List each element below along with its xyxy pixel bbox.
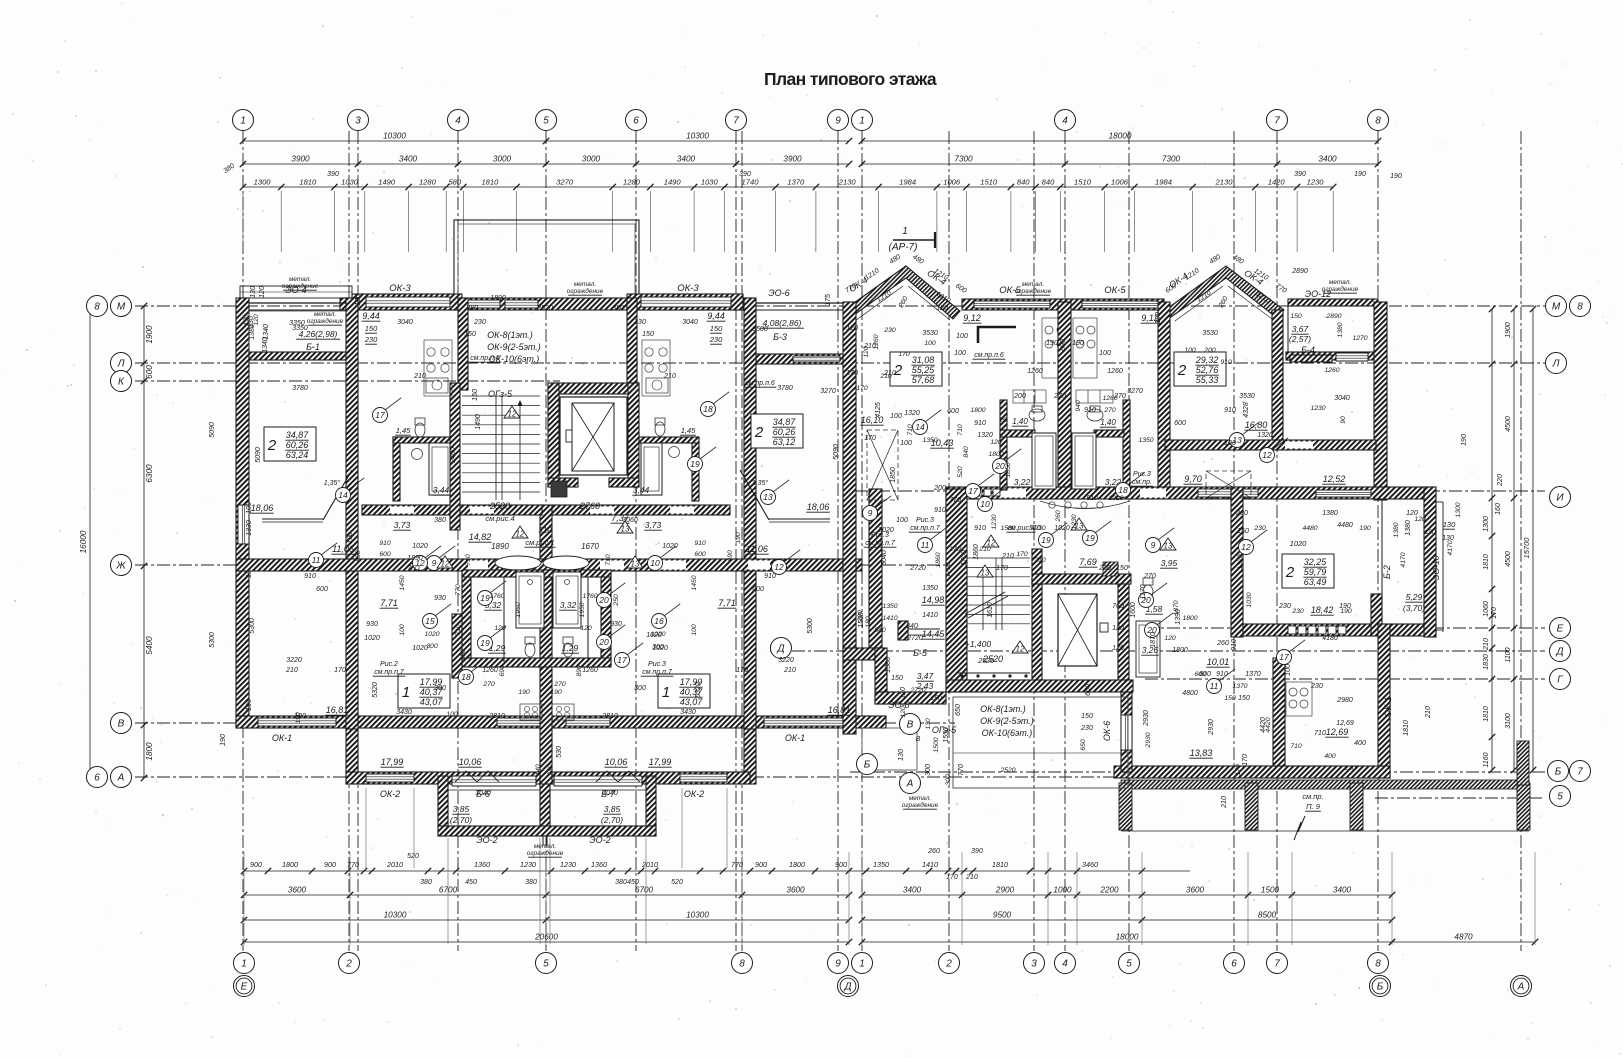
svg-text:3400: 3400 bbox=[1318, 155, 1337, 164]
svg-text:3,44: 3,44 bbox=[633, 485, 650, 495]
svg-text:1984: 1984 bbox=[899, 178, 916, 187]
svg-text:910: 910 bbox=[1084, 407, 1096, 414]
svg-text:3460: 3460 bbox=[1082, 860, 1098, 869]
svg-text:3020: 3020 bbox=[878, 527, 894, 534]
svg-text:18000: 18000 bbox=[1109, 132, 1132, 141]
svg-text:1810: 1810 bbox=[1483, 554, 1490, 570]
svg-text:Б-4: Б-4 bbox=[1301, 345, 1315, 355]
svg-text:7: 7 bbox=[1577, 767, 1583, 778]
svg-text:3780: 3780 bbox=[292, 385, 308, 392]
svg-text:3000: 3000 bbox=[493, 155, 512, 164]
svg-text:270: 270 bbox=[482, 681, 495, 688]
svg-text:150: 150 bbox=[891, 675, 903, 682]
svg-text:120: 120 bbox=[900, 687, 907, 699]
svg-text:20: 20 bbox=[994, 461, 1005, 471]
svg-text:16,80: 16,80 bbox=[1245, 420, 1268, 430]
svg-text:1800: 1800 bbox=[145, 742, 154, 761]
svg-text:2010: 2010 bbox=[641, 860, 658, 869]
svg-text:250: 250 bbox=[613, 594, 620, 607]
svg-text:5400: 5400 bbox=[145, 636, 154, 655]
svg-text:1: 1 bbox=[859, 116, 865, 127]
svg-text:710: 710 bbox=[1314, 730, 1326, 737]
svg-text:4870: 4870 bbox=[1454, 933, 1473, 942]
svg-text:3,73: 3,73 bbox=[394, 520, 411, 530]
svg-text:4: 4 bbox=[1062, 959, 1068, 970]
svg-text:2130: 2130 bbox=[1215, 178, 1234, 187]
svg-text:8: 8 bbox=[1375, 116, 1381, 127]
svg-text:Рис.3: Рис.3 bbox=[648, 661, 666, 668]
svg-text:380: 380 bbox=[612, 305, 624, 312]
svg-text:9500: 9500 bbox=[993, 911, 1012, 920]
svg-text:1890: 1890 bbox=[491, 542, 509, 551]
svg-text:2130: 2130 bbox=[838, 178, 857, 187]
svg-text:100: 100 bbox=[954, 350, 966, 357]
svg-text:1410: 1410 bbox=[882, 615, 897, 622]
svg-text:230: 230 bbox=[633, 319, 646, 326]
svg-text:120: 120 bbox=[253, 314, 260, 326]
svg-text:3,67: 3,67 bbox=[1292, 324, 1309, 334]
svg-text:29,32: 29,32 bbox=[1195, 355, 1219, 365]
svg-text:210: 210 bbox=[978, 546, 991, 553]
svg-text:1380: 1380 bbox=[885, 657, 892, 673]
svg-text:2930: 2930 bbox=[1145, 732, 1152, 748]
svg-text:1020: 1020 bbox=[424, 631, 439, 638]
svg-text:1700: 1700 bbox=[945, 562, 952, 577]
svg-text:2: 2 bbox=[1177, 362, 1187, 379]
svg-text:1500: 1500 bbox=[1261, 886, 1280, 895]
svg-text:100: 100 bbox=[1224, 440, 1236, 447]
svg-text:7060: 7060 bbox=[622, 517, 638, 524]
svg-text:190: 190 bbox=[295, 712, 302, 724]
svg-text:1020: 1020 bbox=[364, 635, 380, 642]
svg-text:1,45: 1,45 bbox=[396, 426, 411, 435]
svg-text:4180: 4180 bbox=[1322, 635, 1338, 642]
svg-text:150: 150 bbox=[642, 331, 654, 338]
svg-text:100: 100 bbox=[1184, 347, 1196, 354]
svg-text:43,07: 43,07 bbox=[420, 697, 444, 707]
svg-text:1700: 1700 bbox=[961, 550, 968, 566]
svg-text:1810: 1810 bbox=[1483, 706, 1490, 722]
svg-text:ОК-5: ОК-5 bbox=[1104, 285, 1126, 296]
svg-text:190: 190 bbox=[246, 699, 253, 711]
svg-text:2: 2 bbox=[267, 437, 277, 454]
svg-text:1830: 1830 bbox=[1483, 654, 1490, 670]
svg-text:380: 380 bbox=[466, 305, 478, 312]
svg-text:7300: 7300 bbox=[954, 155, 973, 164]
svg-text:210: 210 bbox=[1001, 553, 1014, 560]
svg-text:190: 190 bbox=[1354, 171, 1366, 178]
svg-text:770: 770 bbox=[347, 860, 359, 869]
svg-text:1610: 1610 bbox=[987, 602, 994, 618]
svg-text:1300: 1300 bbox=[1483, 516, 1490, 532]
svg-text:1006: 1006 bbox=[1111, 178, 1129, 187]
svg-text:600: 600 bbox=[379, 551, 391, 558]
svg-text:3530: 3530 bbox=[922, 330, 938, 337]
svg-text:19: 19 bbox=[480, 638, 490, 648]
svg-text:130: 130 bbox=[355, 294, 362, 306]
svg-text:63,12: 63,12 bbox=[773, 437, 796, 447]
svg-text:метал.: метал. bbox=[1329, 279, 1352, 286]
svg-text:390: 390 bbox=[971, 848, 983, 855]
svg-text:3430: 3430 bbox=[396, 709, 412, 716]
svg-text:18,06: 18,06 bbox=[807, 502, 830, 512]
svg-text:3400: 3400 bbox=[1333, 886, 1352, 895]
svg-text:14,82: 14,82 bbox=[469, 532, 492, 542]
svg-text:13: 13 bbox=[1164, 542, 1173, 551]
svg-text:1030: 1030 bbox=[1246, 592, 1253, 607]
svg-text:2900: 2900 bbox=[995, 886, 1015, 895]
svg-text:10,06: 10,06 bbox=[459, 757, 482, 767]
svg-text:ОК-9(2-5эт.): ОК-9(2-5эт.) bbox=[487, 342, 541, 352]
svg-text:12: 12 bbox=[1241, 542, 1251, 552]
svg-text:7,71: 7,71 bbox=[380, 598, 398, 608]
svg-text:150: 150 bbox=[1237, 528, 1249, 535]
svg-text:1320: 1320 bbox=[904, 410, 920, 417]
svg-text:3,85: 3,85 bbox=[453, 804, 470, 814]
svg-text:8500: 8500 bbox=[1258, 911, 1277, 920]
svg-text:см.пр.п.7: см.пр.п.7 bbox=[642, 669, 673, 676]
svg-text:100: 100 bbox=[890, 413, 902, 420]
svg-text:1350: 1350 bbox=[922, 585, 938, 592]
svg-text:900: 900 bbox=[324, 860, 336, 869]
svg-text:3100: 3100 bbox=[1505, 713, 1512, 729]
svg-text:100: 100 bbox=[399, 624, 406, 636]
svg-text:8: 8 bbox=[1577, 302, 1583, 313]
svg-text:ограждение: ограждение bbox=[1015, 287, 1052, 295]
svg-text:1760: 1760 bbox=[582, 593, 597, 600]
svg-text:120: 120 bbox=[846, 325, 858, 332]
svg-text:100: 100 bbox=[1285, 664, 1292, 676]
svg-text:А: А bbox=[1517, 982, 1525, 993]
svg-text:1420: 1420 bbox=[1268, 178, 1286, 187]
svg-text:1320: 1320 bbox=[1237, 554, 1244, 569]
svg-text:910: 910 bbox=[694, 540, 706, 547]
svg-text:150: 150 bbox=[1290, 313, 1302, 320]
svg-text:ЭО-2: ЭО-2 bbox=[589, 835, 610, 845]
svg-text:710: 710 bbox=[957, 424, 964, 436]
svg-text:930: 930 bbox=[434, 595, 446, 602]
svg-text:1490: 1490 bbox=[378, 178, 396, 187]
svg-text:1890: 1890 bbox=[490, 295, 506, 302]
svg-text:170: 170 bbox=[864, 435, 876, 442]
svg-text:210: 210 bbox=[663, 373, 676, 380]
svg-text:120: 120 bbox=[900, 706, 907, 718]
svg-text:940: 940 bbox=[1075, 400, 1082, 412]
svg-text:190: 190 bbox=[1390, 173, 1402, 180]
svg-text:3040: 3040 bbox=[397, 319, 413, 326]
svg-text:1020: 1020 bbox=[1290, 539, 1308, 548]
svg-text:260: 260 bbox=[1055, 510, 1062, 523]
svg-text:1810: 1810 bbox=[481, 178, 499, 187]
svg-text:1380: 1380 bbox=[1393, 522, 1400, 537]
svg-text:63,24: 63,24 bbox=[286, 450, 309, 460]
svg-text:2520: 2520 bbox=[999, 767, 1015, 774]
svg-text:34,87: 34,87 bbox=[773, 417, 797, 427]
svg-text:1810: 1810 bbox=[992, 860, 1008, 869]
svg-text:1330: 1330 bbox=[246, 520, 253, 536]
svg-text:600: 600 bbox=[1194, 671, 1206, 678]
svg-text:см.пр.п.7: см.пр.п.7 bbox=[865, 540, 896, 547]
svg-text:4420: 4420 bbox=[1265, 717, 1272, 732]
svg-text:19: 19 bbox=[1041, 535, 1051, 545]
svg-text:Б-3: Б-3 bbox=[773, 332, 787, 342]
svg-text:17: 17 bbox=[968, 486, 978, 496]
svg-text:170: 170 bbox=[736, 667, 748, 674]
svg-text:1,45: 1,45 bbox=[681, 426, 696, 435]
svg-text:Ж: Ж bbox=[115, 561, 126, 572]
svg-text:П. 9: П. 9 bbox=[1306, 802, 1321, 811]
svg-text:770: 770 bbox=[949, 497, 961, 504]
svg-text:ограждение: ограждение bbox=[902, 801, 939, 809]
svg-text:(2,70): (2,70) bbox=[450, 815, 472, 825]
svg-text:1370: 1370 bbox=[1245, 671, 1261, 678]
svg-text:Д: Д bbox=[1555, 647, 1563, 658]
svg-text:1810: 1810 bbox=[1403, 720, 1410, 736]
svg-text:710: 710 bbox=[455, 624, 462, 636]
svg-text:10: 10 bbox=[650, 558, 660, 568]
svg-text:3530: 3530 bbox=[1202, 330, 1218, 337]
svg-text:12: 12 bbox=[516, 530, 525, 539]
svg-text:13: 13 bbox=[981, 569, 990, 578]
svg-text:1,40: 1,40 bbox=[1100, 418, 1116, 427]
svg-text:710: 710 bbox=[1290, 743, 1302, 750]
svg-text:3600: 3600 bbox=[786, 886, 805, 895]
svg-text:450: 450 bbox=[465, 879, 477, 886]
svg-text:120: 120 bbox=[1414, 516, 1426, 523]
svg-text:1230: 1230 bbox=[560, 860, 576, 869]
svg-text:17,99: 17,99 bbox=[381, 757, 404, 767]
svg-text:см.пр.п.6: см.пр.п.6 bbox=[745, 380, 775, 387]
svg-text:1,29: 1,29 bbox=[562, 643, 579, 653]
svg-text:1950: 1950 bbox=[579, 602, 586, 617]
svg-text:5: 5 bbox=[1557, 792, 1563, 803]
svg-text:1: 1 bbox=[402, 684, 410, 701]
svg-text:3,47: 3,47 bbox=[917, 671, 934, 681]
svg-text:2: 2 bbox=[754, 424, 764, 441]
svg-text:840: 840 bbox=[874, 627, 886, 634]
svg-text:План типового этажа: План типового этажа bbox=[764, 69, 937, 89]
svg-text:7: 7 bbox=[1274, 959, 1280, 970]
svg-text:1: 1 bbox=[662, 684, 670, 701]
svg-text:230: 230 bbox=[473, 319, 486, 326]
svg-text:Б-1: Б-1 bbox=[306, 342, 320, 352]
svg-text:12: 12 bbox=[774, 562, 784, 572]
svg-text:760: 760 bbox=[1112, 603, 1124, 610]
svg-text:1810: 1810 bbox=[299, 178, 317, 187]
svg-text:1320: 1320 bbox=[1257, 432, 1273, 439]
svg-text:520: 520 bbox=[957, 466, 964, 478]
svg-text:Б: Б bbox=[1377, 982, 1384, 993]
svg-text:31,08: 31,08 bbox=[912, 355, 935, 365]
svg-text:18: 18 bbox=[1118, 485, 1128, 495]
svg-text:3530: 3530 bbox=[1239, 393, 1255, 400]
svg-text:130: 130 bbox=[1443, 520, 1456, 529]
svg-text:19: 19 bbox=[1085, 533, 1095, 543]
svg-text:7: 7 bbox=[1274, 116, 1280, 127]
svg-text:1230: 1230 bbox=[991, 514, 998, 529]
svg-text:см.пр.п.6: см.пр.п.6 bbox=[974, 352, 1004, 359]
svg-text:5300: 5300 bbox=[209, 632, 216, 648]
svg-text:2760: 2760 bbox=[579, 501, 600, 511]
svg-text:ОК-3: ОК-3 bbox=[677, 283, 699, 294]
svg-text:метал.: метал. bbox=[314, 311, 337, 318]
svg-text:910: 910 bbox=[934, 507, 946, 514]
svg-text:16000: 16000 bbox=[79, 530, 88, 553]
svg-text:5320: 5320 bbox=[695, 682, 702, 698]
svg-text:1230: 1230 bbox=[1071, 514, 1078, 529]
svg-text:1020: 1020 bbox=[1108, 495, 1123, 502]
svg-text:6300: 6300 bbox=[145, 464, 154, 483]
svg-text:530: 530 bbox=[556, 746, 563, 758]
svg-text:А: А bbox=[906, 779, 914, 790]
svg-text:5: 5 bbox=[543, 116, 549, 127]
svg-text:1380: 1380 bbox=[1405, 520, 1412, 536]
svg-text:1,40: 1,40 bbox=[1012, 417, 1028, 426]
svg-text:770: 770 bbox=[455, 584, 462, 596]
svg-text:170: 170 bbox=[996, 565, 1008, 572]
svg-text:7,71: 7,71 bbox=[718, 598, 736, 608]
svg-text:3,85: 3,85 bbox=[604, 804, 621, 814]
svg-text:100: 100 bbox=[896, 517, 908, 524]
svg-text:170: 170 bbox=[1235, 764, 1242, 776]
svg-text:160: 160 bbox=[1495, 503, 1502, 515]
svg-text:ОК-1: ОК-1 bbox=[1383, 697, 1393, 717]
svg-text:770: 770 bbox=[731, 860, 743, 869]
svg-text:1360: 1360 bbox=[591, 860, 607, 869]
svg-text:57,68: 57,68 bbox=[912, 375, 935, 385]
svg-text:7,69: 7,69 bbox=[1079, 557, 1097, 567]
svg-text:380: 380 bbox=[420, 879, 432, 886]
svg-text:см.рис.1: см.рис.1 bbox=[525, 538, 554, 547]
svg-text:А: А bbox=[117, 773, 125, 784]
svg-text:5090: 5090 bbox=[833, 444, 840, 460]
svg-text:650: 650 bbox=[1085, 684, 1092, 696]
svg-text:2930: 2930 bbox=[1208, 719, 1215, 736]
svg-text:1800: 1800 bbox=[282, 860, 298, 869]
svg-text:270: 270 bbox=[553, 681, 566, 688]
svg-text:190: 190 bbox=[1461, 434, 1468, 446]
svg-text:190: 190 bbox=[1046, 340, 1058, 347]
svg-text:5: 5 bbox=[1126, 959, 1132, 970]
svg-text:170: 170 bbox=[946, 874, 958, 881]
svg-text:120: 120 bbox=[1112, 625, 1124, 632]
svg-text:910: 910 bbox=[304, 573, 316, 580]
svg-text:12,69: 12,69 bbox=[1336, 720, 1354, 727]
svg-text:170: 170 bbox=[898, 351, 910, 358]
svg-text:210: 210 bbox=[879, 373, 892, 380]
svg-text:100: 100 bbox=[956, 333, 968, 340]
svg-text:17: 17 bbox=[375, 410, 385, 420]
svg-text:175: 175 bbox=[825, 294, 832, 306]
svg-text:90: 90 bbox=[1340, 416, 1347, 424]
svg-text:2: 2 bbox=[345, 959, 352, 970]
svg-text:3040: 3040 bbox=[602, 790, 618, 797]
svg-text:(3,70): (3,70) bbox=[1403, 603, 1425, 613]
svg-text:3,73: 3,73 bbox=[645, 520, 662, 530]
svg-text:1300: 1300 bbox=[1455, 502, 1462, 517]
svg-text:300: 300 bbox=[426, 643, 438, 650]
svg-text:Л: Л bbox=[117, 359, 125, 370]
svg-text:300: 300 bbox=[634, 685, 646, 692]
svg-text:3000: 3000 bbox=[582, 155, 601, 164]
svg-text:4500: 4500 bbox=[1505, 416, 1512, 432]
svg-text:ОК-8(1эт.): ОК-8(1эт.) bbox=[487, 330, 533, 340]
svg-text:ОК-9(2-5эт.): ОК-9(2-5эт.) bbox=[980, 716, 1034, 726]
svg-text:910: 910 bbox=[1216, 671, 1228, 678]
svg-text:8: 8 bbox=[1375, 959, 1381, 970]
svg-text:1900: 1900 bbox=[1505, 322, 1512, 338]
svg-text:11: 11 bbox=[1210, 681, 1219, 691]
svg-text:230: 230 bbox=[1310, 683, 1323, 690]
svg-text:150: 150 bbox=[710, 324, 723, 333]
svg-text:1760: 1760 bbox=[489, 593, 504, 600]
svg-text:1550: 1550 bbox=[943, 727, 950, 743]
svg-text:170: 170 bbox=[949, 546, 961, 553]
svg-text:520: 520 bbox=[671, 879, 683, 886]
svg-text:Л: Л bbox=[1552, 359, 1560, 370]
svg-text:600: 600 bbox=[752, 586, 764, 593]
svg-text:ОК-2: ОК-2 bbox=[684, 789, 704, 799]
svg-text:190: 190 bbox=[220, 734, 227, 746]
svg-text:И: И bbox=[1556, 493, 1564, 504]
svg-text:120: 120 bbox=[1155, 312, 1162, 324]
svg-text:910: 910 bbox=[974, 420, 986, 427]
svg-text:150: 150 bbox=[1238, 695, 1250, 702]
svg-text:930: 930 bbox=[610, 621, 622, 628]
svg-text:12,52: 12,52 bbox=[1323, 474, 1346, 484]
svg-text:ОК-6: ОК-6 bbox=[1102, 721, 1112, 741]
svg-text:13: 13 bbox=[631, 560, 640, 569]
svg-text:220: 220 bbox=[1497, 474, 1504, 487]
svg-text:170: 170 bbox=[846, 370, 858, 377]
svg-text:Б-5: Б-5 bbox=[913, 648, 928, 658]
svg-text:3040: 3040 bbox=[475, 790, 491, 797]
svg-text:230: 230 bbox=[1291, 608, 1304, 615]
svg-text:2720: 2720 bbox=[906, 635, 923, 642]
svg-text:2520: 2520 bbox=[536, 305, 553, 312]
svg-text:210: 210 bbox=[1221, 796, 1228, 809]
svg-text:1380: 1380 bbox=[1322, 510, 1338, 517]
svg-text:2010: 2010 bbox=[386, 860, 403, 869]
svg-text:12: 12 bbox=[441, 560, 450, 569]
svg-text:600: 600 bbox=[1174, 420, 1186, 427]
svg-text:(АР-7): (АР-7) bbox=[889, 242, 918, 253]
svg-text:3600: 3600 bbox=[1186, 886, 1205, 895]
svg-text:1260: 1260 bbox=[873, 334, 880, 349]
svg-text:900: 900 bbox=[250, 860, 262, 869]
svg-text:см.пр.п.7: см.пр.п.7 bbox=[910, 525, 941, 532]
svg-text:18: 18 bbox=[703, 404, 713, 414]
svg-text:910: 910 bbox=[1224, 407, 1236, 414]
svg-text:200: 200 bbox=[1203, 347, 1216, 354]
svg-text:Рис.3: Рис.3 bbox=[916, 517, 934, 524]
svg-text:2720: 2720 bbox=[909, 565, 926, 572]
svg-text:2: 2 bbox=[1285, 564, 1295, 581]
svg-text:5: 5 bbox=[543, 959, 549, 970]
svg-text:1030: 1030 bbox=[701, 178, 719, 187]
svg-text:1490: 1490 bbox=[664, 178, 682, 187]
svg-text:1020: 1020 bbox=[1054, 525, 1070, 532]
svg-text:200: 200 bbox=[1013, 393, 1026, 400]
svg-text:1410: 1410 bbox=[922, 860, 938, 869]
svg-text:150: 150 bbox=[1081, 713, 1093, 720]
svg-text:400: 400 bbox=[1324, 753, 1336, 760]
svg-text:1260: 1260 bbox=[482, 667, 498, 674]
svg-text:300: 300 bbox=[945, 774, 952, 786]
svg-text:130: 130 bbox=[1424, 529, 1436, 536]
svg-text:1890: 1890 bbox=[407, 555, 423, 562]
svg-text:1,35°: 1,35° bbox=[752, 479, 769, 487]
